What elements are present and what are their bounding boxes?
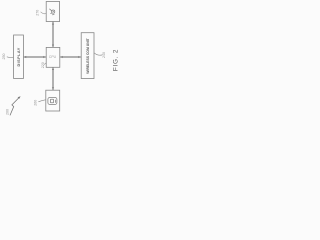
svg-text:240: 240 (102, 52, 106, 58)
svg-text:220: 220 (41, 62, 45, 68)
svg-text:CPU: CPU (49, 55, 57, 59)
svg-text:250: 250 (2, 54, 6, 60)
svg-text:FIG. 2: FIG. 2 (113, 49, 120, 71)
svg-text:270: 270 (36, 10, 40, 16)
svg-text:DISPLAY: DISPLAY (17, 47, 21, 66)
svg-text:260: 260 (33, 100, 37, 106)
svg-text:200: 200 (6, 109, 10, 115)
svg-text:WIRELESS COM UNIT: WIRELESS COM UNIT (86, 37, 90, 73)
